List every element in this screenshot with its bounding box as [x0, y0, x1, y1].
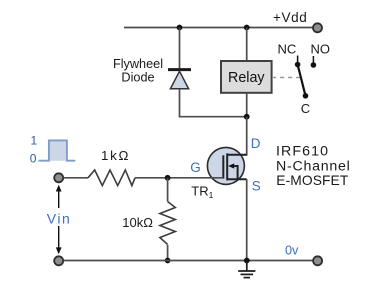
wire: bottom 0v rail [64, 260, 313, 262]
wire: resistor R2 to 0v rail [167, 245, 169, 261]
transistor TR1 source stroke inside body [227, 178, 247, 180]
switch SW common contact C [303, 93, 309, 99]
svg-text:0v: 0v [285, 243, 299, 257]
wire: drain junction down to MOSFET drain [227, 117, 247, 155]
wire: dashed mechanical link relay to contacts [272, 77, 301, 79]
wire: top +Vdd rail [124, 27, 313, 29]
input pulse waveform [38, 140, 75, 160]
switch SW contact NC pole [297, 56, 299, 64]
svg-text:C: C [301, 101, 310, 116]
svg-text:0: 0 [30, 151, 37, 165]
terminal: Vin bottom [54, 256, 63, 265]
svg-text:G: G [190, 160, 201, 175]
terminal: Vin top [54, 173, 63, 182]
wire: diode cathode branch [179, 28, 181, 69]
diode D1 flywheel cathode bar [168, 68, 191, 71]
svg-text:1: 1 [31, 133, 38, 147]
ground symbol [238, 261, 255, 278]
svg-text:Flywheel: Flywheel [113, 57, 163, 71]
transistor TR1 MOSFET body circle [207, 147, 244, 184]
svg-text:Diode: Diode [121, 71, 154, 85]
terminal: +Vdd [313, 23, 322, 32]
node: R2 bottom rail junction [165, 258, 171, 264]
wire: diode anode to drain junction [180, 89, 247, 117]
svg-text:D: D [251, 136, 261, 151]
transistor TR1 drain stroke inside body [227, 154, 247, 156]
svg-text:NO: NO [311, 42, 331, 57]
transistor TR1 channel bar [226, 153, 228, 180]
node: drain junction [244, 114, 250, 120]
wire: relay top lead [246, 28, 248, 62]
transistor TR1 gate plate [222, 155, 224, 178]
diode D1 flywheel anode triangle [170, 71, 188, 89]
wire: gate junction down to resistor R2 [167, 178, 169, 202]
relay RL1 box [221, 61, 272, 93]
transistor TR1 body arrow [228, 163, 234, 168]
wire: resistor R1 to gate junction and on to gate [135, 177, 223, 179]
svg-text:N-Channel: N-Channel [276, 158, 351, 174]
resistor R1 1k zigzag [88, 170, 135, 186]
svg-text:NC: NC [278, 42, 297, 57]
wire: input terminal to resistor R1 [64, 177, 89, 179]
node: top rail / relay branch junction [244, 25, 250, 31]
svg-text:10kΩ: 10kΩ [122, 215, 153, 230]
wire: MOSFET source down to 0v rail [246, 179, 248, 260]
svg-text:IRF610: IRF610 [276, 144, 329, 160]
node: source rail junction [244, 258, 250, 264]
resistor R2 10k zigzag [160, 202, 175, 245]
terminal: 0v [313, 256, 322, 265]
svg-text:S: S [252, 179, 261, 194]
svg-text:Vin: Vin [47, 211, 71, 227]
node: gate junction [165, 175, 171, 181]
svg-text:Relay: Relay [228, 70, 265, 86]
svg-text:1kΩ: 1kΩ [101, 148, 130, 163]
svg-text:+Vdd: +Vdd [273, 10, 307, 25]
node: Vin measurement arrows [44, 185, 74, 255]
node: top rail / diode branch junction [177, 25, 183, 31]
svg-text:E-MOSFET: E-MOSFET [276, 173, 349, 188]
wire: relay bottom lead [246, 93, 248, 117]
switch SW arm C to NC [298, 65, 306, 96]
switch SW contact NO pole [312, 56, 314, 64]
